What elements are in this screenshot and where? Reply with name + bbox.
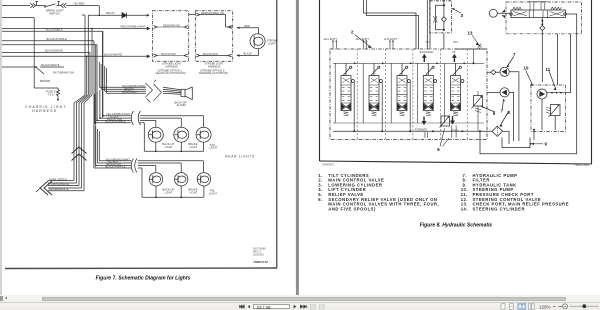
svg-text:HARNESS: HARNESS [208, 64, 221, 68]
svg-text:YEL/RED: YEL/RED [73, 2, 85, 6]
zoom slider knob [582, 304, 586, 308]
svg-text:STEERING CYLINDER: STEERING CYLINDER [473, 206, 525, 211]
pump 7 lower output [509, 92, 513, 141]
aux section stubs [333, 41, 393, 49]
svg-text:ALARM: ALARM [177, 103, 187, 107]
spool 3 [391, 62, 411, 131]
strobe harness connector box option1 [153, 11, 189, 62]
down arrow below spool5 [452, 116, 454, 121]
strobe light wires [239, 28, 259, 56]
lowering cylinder 3 [430, 1, 452, 33]
relief valve 5 [474, 96, 483, 107]
svg-text:PURPLE/WHITE: PURPLE/WHITE [49, 182, 69, 186]
spool 2 [363, 62, 383, 131]
back-up alarm horn [181, 89, 185, 96]
label 2 leader [355, 35, 372, 48]
wire to strobe harness option1 top [2, 28, 147, 30]
filter 8 [492, 126, 503, 136]
check port diamond at valve outlet [491, 70, 496, 75]
row2 ground bus [142, 186, 204, 197]
svg-text:BLACK: BLACK [244, 52, 253, 56]
valve top pilot lines [529, 2, 547, 10]
svg-text:6.: 6. [318, 197, 323, 202]
label 3 leader [452, 8, 461, 13]
harness break row2 [131, 159, 137, 173]
relief 5 drain [477, 112, 479, 131]
steering pump 10 [537, 89, 547, 99]
history back icon (disabled) [311, 304, 316, 309]
svg-text:SWITCH: SWITCH [49, 11, 60, 15]
bundle verticals group T [74, 15, 85, 181]
fig7 doc number block [253, 247, 266, 257]
steering valve body [511, 10, 566, 18]
fig8 frame bottom border [320, 161, 592, 164]
lamp tail light row1 [196, 127, 211, 142]
strobe light L1 [250, 34, 265, 49]
connector chevrons at brake light switch [30, 3, 66, 8]
pump 7 upper output [509, 72, 519, 141]
label 6 leaders [440, 129, 449, 147]
return bus inside box [333, 130, 492, 132]
spool 5 lift [445, 62, 465, 123]
fig8 item number labels [351, 13, 551, 152]
wire black/white [2, 53, 90, 189]
layout icon single page [501, 304, 505, 309]
lamp back-up light row2 [149, 173, 162, 186]
svg-text:LIGHT: LIGHT [165, 145, 173, 149]
wire black/purple 2 [2, 45, 97, 121]
svg-text:HEADS-UP ACTIVATION): HEADS-UP ACTIVATION) [156, 71, 186, 75]
wire black/purple [2, 41, 94, 165]
connector chassis harness chevron [40, 181, 52, 195]
steering relief valve [551, 105, 561, 116]
svg-text:120%: 120% [539, 304, 551, 309]
svg-text:REAR LIGHTS: REAR LIGHTS [225, 155, 255, 159]
svg-text:YEL/GRN/BLK: YEL/GRN/BLK [45, 27, 63, 31]
svg-text:DARK GREEN: DARK GREEN [49, 177, 67, 181]
svg-text:Figure 8. Hydraulic Schematic: Figure 8. Hydraulic Schematic [420, 222, 493, 228]
svg-text:7.5 A: 7.5 A [48, 93, 54, 97]
wire YEL/RED to strobe area [2, 18, 34, 68]
svg-text:BLACK/TAN: BLACK/TAN [161, 52, 176, 56]
svg-text:BLACK/TAN: BLACK/TAN [203, 52, 218, 56]
steering wheel [489, 9, 497, 17]
svg-text:RED/GRN/BLK/WHT: RED/GRN/BLK/WHT [121, 25, 146, 29]
spool 4 tilt [418, 62, 438, 123]
layout icon continuous [510, 304, 514, 309]
svg-text:TILT: TILT [425, 40, 431, 44]
svg-text:BLACK/WHITE: BLACK/WHITE [45, 49, 63, 53]
lift cylinder lines [427, 0, 430, 49]
rear lights row2 bus wires [94, 125, 99, 168]
valve ports [510, 13, 513, 16]
fig7 frame right border [276, 0, 278, 268]
svg-text:YM251750A: YM251750A [574, 163, 589, 167]
layout icon facing (selected) [518, 303, 526, 309]
spool4 spool5 drain stubs [425, 125, 456, 137]
svg-text:UP: UP [452, 51, 456, 54]
wires to chassis harness connector [48, 181, 84, 191]
zoom slider [570, 305, 600, 307]
next page button [294, 305, 297, 309]
svg-text:BROWN: BROWN [40, 79, 50, 83]
internal gallery lines [333, 63, 484, 123]
svg-text:13: 13 [468, 30, 473, 35]
fig8 frame left border [319, 0, 321, 161]
svg-text:LIGHT: LIGHT [209, 146, 217, 150]
svg-text:LIGHT: LIGHT [209, 191, 217, 195]
svg-text:(102902): (102902) [253, 253, 264, 257]
steering pump assembly box [531, 85, 566, 132]
svg-text:BACKWARD: BACKWARD [420, 51, 434, 54]
svg-text:BLACK/WHT: BLACK/WHT [122, 90, 138, 94]
fig7 frame bottom border [5, 267, 277, 270]
steering valve center drain w/ check [541, 18, 543, 26]
wire brake-light feed [2, 6, 99, 16]
wire exit brake sw [2, 67, 64, 74]
hydraulic pump 7 upper [500, 67, 509, 76]
svg-text:HARNESS: HARNESS [32, 109, 57, 113]
viewer left edge [0, 0, 2, 296]
svg-text:LIGHT: LIGHT [165, 191, 173, 195]
legend list [318, 173, 569, 212]
first page button [239, 305, 244, 308]
chevron break on left bundle [72, 147, 87, 161]
fig7 labels [40, 2, 278, 196]
up arrow above spool5 [453, 58, 455, 63]
lamp tail light row2 [197, 173, 210, 186]
springs [513, 7, 522, 9]
page field dropdown caret [286, 306, 289, 308]
svg-text:AUX EQPT: AUX EQPT [384, 37, 398, 41]
hydraulic pump 7 lower [500, 88, 509, 97]
svg-text:BLACK/PURPLE: BLACK/PURPLE [105, 165, 126, 169]
svg-text:BLK/LT: BLK/LT [106, 11, 115, 15]
bundle verticals group R [95, 45, 97, 167]
svg-text:BLACK/WHITE: BLACK/WHITE [41, 63, 59, 67]
strobe harness connector box option2 [195, 11, 232, 62]
svg-text:AND FIVE SPOOLS): AND FIVE SPOOLS) [328, 206, 376, 211]
lift section pressure gallery [455, 48, 487, 49]
forward arrow below spool4 [423, 117, 425, 122]
main control valve dashed box U2 [330, 49, 487, 140]
history fwd icon (disabled) [320, 304, 325, 309]
chassis light harness title [25, 105, 67, 113]
fig8 frame right border [591, 0, 593, 164]
spool 1 [335, 62, 355, 131]
lamp brake light row1 [174, 127, 189, 142]
lamp brake light row2 [175, 173, 188, 186]
svg-text:14.: 14. [461, 206, 468, 211]
last page button [300, 305, 306, 309]
label 13 leader [472, 35, 479, 45]
lamp back-up light row1 [148, 127, 163, 142]
svg-text:LIGHT: LIGHT [189, 145, 197, 149]
svg-text:RED/GRN ON: RED/GRN ON [163, 23, 180, 27]
fuse F5 brown feed [34, 67, 58, 90]
layout icon continuous facing [528, 304, 531, 309]
outer return loop [480, 14, 577, 154]
svg-text:BLACK/PURPLE: BLACK/PURPLE [106, 120, 127, 124]
diode D1 [88, 13, 147, 18]
svg-text:Figure 7. Schematic Diagram f: Figure 7. Schematic Diagram for Lights [96, 276, 191, 282]
fig8 small labels [324, 37, 459, 133]
break chevrons alarm row [146, 80, 162, 103]
rear lights row1 bus wires [102, 115, 104, 117]
svg-text:AUX EQPT: AUX EQPT [324, 37, 338, 41]
svg-text:RED: RED [244, 24, 250, 28]
hydraulic tank 9 [502, 138, 530, 148]
secondary relief valve 6 [441, 116, 450, 126]
page divider between facing pages [296, 0, 299, 295]
tilt cylinder lines [364, 0, 419, 49]
svg-text:BROWN/WHITE: BROWN/WHITE [49, 187, 69, 191]
label leaders right page [482, 57, 557, 127]
wires into back-up alarm [163, 87, 181, 94]
wire black/white to option1 bottom [2, 55, 147, 57]
svg-text:RED/GRN/BLK ON: RED/GRN/BLK ON [201, 11, 224, 15]
svg-text:REVERSE ACTIVATION): REVERSE ACTIVATION) [199, 71, 228, 75]
steering control valve 12 box [506, 2, 582, 34]
zoom out button [559, 306, 562, 308]
steering valve right-side lines down [558, 34, 571, 93]
svg-text:LIGHT: LIGHT [189, 191, 197, 195]
row1 ground bus [144, 142, 203, 151]
svg-text:AUX EQPT: AUX EQPT [356, 37, 370, 41]
svg-text:LIGHT: LIGHT [268, 41, 276, 45]
alarm wires [99, 87, 146, 93]
svg-text:10: 10 [524, 66, 529, 71]
svg-text:HARNESS: HARNESS [166, 64, 179, 68]
svg-text:DOWN: DOWN [451, 130, 459, 133]
svg-text:11: 11 [546, 67, 551, 72]
prev page button [248, 305, 250, 308]
svg-text:BLACK/WHITE: BLACK/WHITE [104, 52, 122, 56]
backward arrow above spool4 [423, 58, 425, 63]
wire yel/grn/blk [2, 31, 103, 118]
switch S1 brake light switch [35, 2, 60, 7]
svg-text:EXIT BRAKE SW: EXIT BRAKE SW [53, 70, 74, 74]
svg-text:YM251712: YM251712 [253, 260, 268, 264]
svg-text:LIFT: LIFT [453, 40, 459, 44]
valve section dividers [357, 49, 467, 140]
harness break row1 [131, 111, 140, 125]
svg-text:FORWARD: FORWARD [415, 128, 427, 131]
svg-text:ATA44371: ATA44371 [322, 162, 335, 166]
strobe option captions [156, 62, 229, 76]
svg-text:BLACK/PURPLE: BLACK/PURPLE [47, 37, 68, 41]
label 9 arrow [533, 143, 543, 145]
